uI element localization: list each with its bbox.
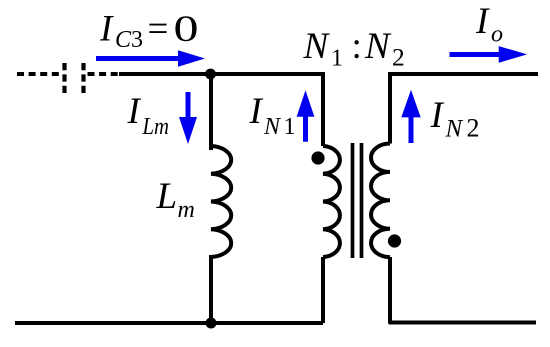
svg-text:N: N xyxy=(263,114,282,140)
node junction bottom xyxy=(206,318,217,329)
svg-text:N: N xyxy=(445,116,464,143)
svg-text:I: I xyxy=(430,95,445,136)
current arrow I_N1 (blue, up) xyxy=(303,116,308,142)
svg-text:0: 0 xyxy=(174,9,199,50)
wire: dashed input lead left xyxy=(17,72,61,76)
transformer secondary winding N2 xyxy=(371,144,390,258)
transformer primary winding N1 xyxy=(323,146,340,257)
svg-text:L: L xyxy=(156,176,178,217)
wire: dashed input lead right xyxy=(88,72,122,76)
svg-text:1: 1 xyxy=(284,114,296,140)
wire: transformer secondary top lead xyxy=(388,74,392,144)
svg-text:=: = xyxy=(148,9,169,50)
svg-text:m: m xyxy=(178,197,195,223)
svg-text:C: C xyxy=(115,27,132,53)
svg-text:2: 2 xyxy=(467,114,480,143)
wire: top left horizontal xyxy=(119,72,325,76)
node junction top xyxy=(205,69,216,80)
wire: Lm top lead xyxy=(209,74,213,150)
wire: secondary bottom lead and right rail xyxy=(390,257,536,323)
svg-text:3: 3 xyxy=(131,27,143,53)
svg-text:I: I xyxy=(475,1,490,42)
polarity dot primary xyxy=(311,151,324,164)
svg-text:Lm: Lm xyxy=(142,114,169,140)
current arrow I_o (blue, right) xyxy=(450,52,502,57)
svg-text:2: 2 xyxy=(392,43,405,72)
wire: transformer primary bottom lead xyxy=(321,257,325,323)
transformer core line 2 xyxy=(360,143,364,258)
svg-text:1: 1 xyxy=(331,46,343,72)
current arrow I_C3 (blue, right) xyxy=(96,56,182,61)
wire: transformer primary top lead xyxy=(323,74,325,146)
svg-text:I: I xyxy=(99,9,114,50)
inductor Lm xyxy=(211,146,231,257)
transformer core line 1 xyxy=(351,143,355,258)
svg-text:I: I xyxy=(127,91,142,132)
wire: Lm bottom lead xyxy=(209,255,213,323)
capacitor C3 left plate (dashed) xyxy=(62,63,66,93)
current arrow I_Lm (blue, down) xyxy=(186,92,191,119)
svg-text:o: o xyxy=(491,22,503,48)
capacitor C3 right plate (dashed) xyxy=(81,63,85,93)
current arrow I_N2 (blue, up) xyxy=(409,116,414,143)
wire: output top right xyxy=(388,72,538,76)
svg-text:I: I xyxy=(249,91,264,132)
svg-text:N: N xyxy=(364,26,392,67)
svg-text::: : xyxy=(352,26,362,67)
svg-text:N: N xyxy=(303,26,331,67)
wire: bottom rail left xyxy=(15,321,323,325)
polarity dot secondary xyxy=(388,234,401,247)
